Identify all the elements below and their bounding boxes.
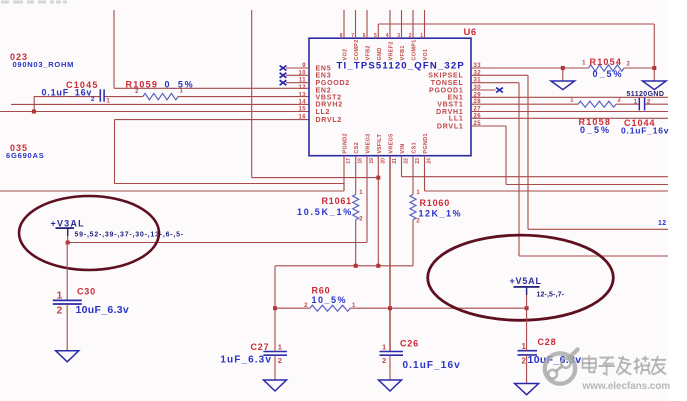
wire net EN2 vertical from top (113, 10, 115, 88)
svg-text:1: 1 (106, 98, 110, 105)
svg-text:6: 6 (363, 33, 366, 39)
svg-text:11: 11 (299, 78, 306, 84)
wire pin13 branch to C1045 (34, 96, 100, 111)
svg-text:PGND1: PGND1 (423, 133, 429, 153)
net label 51120GND (627, 91, 665, 98)
pin 19 VREG3 (bottom) (366, 133, 375, 163)
R1059 labels (126, 79, 195, 89)
wire R60 to VREG5 junction (350, 307, 390, 309)
C1044 pin labels (634, 98, 651, 105)
svg-text:17: 17 (346, 158, 352, 164)
svg-text:VO1: VO1 (423, 49, 429, 61)
svg-text:VIN: VIN (400, 144, 406, 154)
svg-text:10uF_6.3v: 10uF_6.3v (76, 304, 129, 316)
ground symbol C26 (379, 380, 402, 391)
ground symbol (SKIPSEL) (551, 81, 575, 90)
wire pin29 EN1 row (471, 96, 668, 98)
junction dot gnd-right (652, 66, 656, 70)
wire pin28 to R1058 (471, 103, 578, 105)
C1044 labels (621, 118, 669, 135)
svg-text:10: 10 (299, 70, 307, 76)
op-amp U6 TL_TPS51120_QFN_32P body (309, 38, 471, 156)
wire V5FILT column (377, 156, 379, 266)
svg-text:VREG3: VREG3 (366, 133, 372, 153)
pin 25 DRVL1 (right) (437, 121, 481, 130)
svg-text:12: 12 (299, 85, 307, 91)
pin 6 VFB2 (top) (363, 10, 372, 61)
svg-text:2: 2 (135, 89, 139, 95)
svg-text:4: 4 (386, 33, 389, 39)
svg-text:R1059: R1059 (126, 79, 159, 89)
svg-text:LL2: LL2 (316, 109, 331, 116)
svg-text:0_5%: 0_5% (580, 125, 611, 135)
svg-text:10_5%: 10_5% (312, 295, 348, 305)
wire CS2 column to R1061 (355, 156, 357, 195)
svg-text:10.5K_1%: 10.5K_1% (297, 207, 353, 217)
svg-text:12-,5-,7-: 12-,5-,7- (537, 291, 565, 298)
C27 labels (220, 342, 272, 365)
C27 pin labels (278, 342, 282, 365)
pin 15 LL2 (left) (299, 107, 331, 116)
ground stub left (562, 68, 564, 81)
svg-text:CS2: CS2 (354, 142, 360, 154)
svg-text:1: 1 (57, 290, 63, 302)
svg-text:PGND2: PGND2 (343, 133, 349, 153)
pin 33 (right) (474, 63, 482, 69)
svg-text:EN5: EN5 (316, 65, 332, 72)
wire R1061 to junction row (355, 220, 357, 266)
svg-text:EN2: EN2 (316, 87, 332, 94)
ground stub right (653, 68, 655, 81)
svg-text:22: 22 (404, 158, 410, 164)
svg-text:+V3AL: +V3AL (51, 218, 85, 228)
wire +V3AL rail (68, 242, 367, 244)
wire corner into PGND2 rail (343, 184, 345, 192)
wire horizontal y183 (115, 183, 345, 185)
pin 27 DRVH1 (right) (436, 107, 481, 116)
pin 4 VREF2 (top) (386, 10, 395, 61)
svg-text:EN3: EN3 (316, 73, 332, 80)
pin 11 PGOOD2 (left) (280, 78, 350, 87)
wire +V5AL stub (526, 295, 528, 308)
svg-text:20: 20 (380, 158, 386, 164)
pin 20 V5FILT (bottom) (377, 134, 386, 164)
wire PGND2 rail to left edge (0, 190, 344, 192)
pin 1 VO1 (top) (420, 10, 429, 61)
resistor R1059 (143, 93, 178, 99)
C1045 labels (42, 80, 99, 97)
svg-text:1: 1 (570, 97, 574, 103)
wire C27 column (274, 308, 276, 380)
svg-text:2: 2 (416, 218, 420, 224)
svg-text:CS1: CS1 (412, 142, 418, 154)
svg-text:VFB1: VFB1 (400, 45, 406, 60)
junction dot C27 tee (273, 306, 277, 310)
svg-text:0.1uF_16v: 0.1uF_16v (403, 360, 461, 371)
svg-text:12K_1%: 12K_1% (419, 209, 463, 219)
svg-text:18: 18 (358, 158, 364, 164)
watermark url (582, 381, 671, 392)
white margin strip right (669, 0, 687, 401)
R1054 labels (582, 57, 630, 79)
pin 16 DRVL2 (left) (299, 115, 343, 124)
R1060 labels (419, 198, 463, 219)
svg-text:DRVL1: DRVL1 (437, 123, 464, 130)
C1045 pin labels (91, 96, 110, 104)
U6 part name title (337, 61, 465, 72)
capacitor C1044 plates (639, 98, 644, 111)
pin 31 TONSEL (right) (431, 78, 482, 87)
svg-text:COMP1: COMP1 (412, 39, 418, 60)
resistor R60 (310, 305, 350, 311)
wire C1044 to edge (645, 103, 668, 105)
svg-text:C26: C26 (400, 339, 419, 349)
part text Q35 (10, 143, 28, 153)
wire pin27 DRVH1 row (471, 111, 668, 113)
wire junction row drop to C27 (274, 266, 276, 308)
pin 21 VREG5 (bottom) (389, 133, 398, 163)
pin 30 PGOOD1 (right) (429, 85, 481, 94)
wire pin15 LL2 row (0, 111, 309, 113)
pin 17 PGND2 (bottom) (343, 133, 352, 163)
wire C28 column (526, 308, 528, 383)
wire C30 to ground (66, 304, 68, 351)
wire C27 tee to R60 (275, 307, 310, 309)
wire pin31 route (471, 83, 668, 256)
net list +V3AL (75, 231, 184, 238)
svg-text:2: 2 (382, 356, 386, 365)
R1059 pin labels (135, 88, 183, 94)
capacitor C26 plates (380, 352, 404, 356)
pin 2 COMP1 (top) (409, 10, 418, 61)
wire VREG3 column (366, 156, 368, 243)
net list +V5AL (537, 291, 565, 298)
faint cropped text remnant top-left (1, 1, 67, 4)
svg-text:1: 1 (582, 61, 586, 67)
svg-text:24: 24 (427, 158, 433, 164)
ground symbol C27 (264, 380, 287, 391)
C30 labels (76, 287, 129, 316)
C28 pin labels (522, 342, 527, 366)
wire CS1 column to R1060 (412, 156, 414, 195)
ellipse annotation right (428, 235, 614, 320)
wire pin30 stub (471, 89, 496, 91)
svg-text:GND: GND (377, 47, 383, 60)
R1058 pin labels (570, 97, 621, 103)
pin 26 LL1 (right) (449, 113, 481, 122)
svg-text:9: 9 (302, 63, 306, 69)
svg-text:1uF_6.3v: 1uF_6.3v (220, 355, 272, 366)
svg-text:www.elecfans.com: www.elecfans.com (582, 381, 671, 392)
svg-text:R1061: R1061 (321, 196, 352, 206)
resistor R1061 (353, 195, 359, 220)
svg-text:2: 2 (627, 62, 631, 68)
capacitor C28 plates (518, 351, 538, 355)
svg-text:DRVH2: DRVH2 (316, 102, 343, 109)
svg-text:1: 1 (278, 342, 282, 351)
pin 23 CS1 (bottom) (412, 142, 421, 164)
resistor R1058 (578, 101, 616, 107)
pin 3 VFB1 (top) (397, 10, 406, 61)
wire +V3AL stub (67, 236, 69, 243)
svg-text:0_5%: 0_5% (593, 69, 624, 79)
svg-text:V5FILT: V5FILT (377, 134, 383, 154)
C28 labels (528, 337, 582, 366)
svg-text:C27: C27 (251, 342, 270, 352)
part text 6G690AS (6, 151, 45, 160)
pin 10 EN3 (left) (280, 70, 332, 79)
capacitor C27 plates (263, 352, 287, 356)
svg-text:2: 2 (409, 33, 412, 39)
junction dot V5FILT bottom (376, 264, 380, 268)
R1061 labels (297, 196, 353, 217)
wire pin16 DRVL2 row (115, 119, 310, 121)
junction dot C28/+V5AL (525, 306, 529, 310)
svg-text:PGOOD1: PGOOD1 (429, 87, 463, 94)
wire pin14 DRVH2 row (11, 103, 309, 105)
svg-text:1: 1 (522, 342, 527, 351)
svg-text:2: 2 (359, 217, 363, 223)
power symbol +V5AL (514, 286, 540, 295)
svg-text:VREG5: VREG5 (389, 133, 395, 153)
wire R1058 to C1044 (616, 103, 639, 105)
pin 14 DRVH2 (left) (299, 99, 343, 108)
capacitor C1045 plates (100, 89, 104, 101)
net stub label 12 (658, 220, 666, 227)
ellipse annotation left (19, 196, 159, 270)
svg-text:PGOOD2: PGOOD2 (316, 80, 350, 87)
U6 refdes (464, 27, 477, 38)
pin 9 EN5 (left) (280, 63, 332, 72)
pin 28 VBST1 (right) (437, 99, 481, 108)
svg-text:SKIPSEL: SKIPSEL (428, 73, 463, 80)
part text 090N03_ROHM (13, 60, 75, 69)
svg-text:TONSEL: TONSEL (431, 80, 464, 87)
C30 pin labels (57, 290, 63, 317)
svg-text:19: 19 (369, 158, 375, 164)
svg-text:VREF2: VREF2 (389, 41, 395, 60)
wire C1045 to R1059 (104, 96, 143, 98)
svg-text:2: 2 (618, 97, 622, 103)
wire vertical from top x252 (251, 10, 253, 178)
svg-text:2: 2 (522, 357, 527, 366)
wire DRVL2 vertical drop (114, 120, 116, 184)
svg-text:U6: U6 (464, 27, 477, 38)
svg-text:23: 23 (415, 158, 421, 164)
wire pin33 SKIPSEL row (471, 67, 589, 69)
svg-text:090N03_ROHM: 090N03_ROHM (13, 60, 75, 69)
pin 5 GND (top) (374, 33, 383, 60)
watermark chinese text (583, 355, 667, 374)
wire pin32 route (471, 75, 668, 229)
watermark logo (545, 350, 578, 384)
R60 labels (312, 286, 348, 305)
wire GND pin5 up-over to right (378, 24, 654, 68)
svg-text:21: 21 (392, 158, 398, 164)
svg-text:13: 13 (299, 92, 307, 98)
R1060 pin labels (416, 190, 420, 224)
svg-text:VFB2: VFB2 (366, 45, 372, 60)
junction dot V5FILT tee (376, 176, 380, 180)
svg-text:VBST1: VBST1 (437, 102, 463, 109)
svg-text:TI_TPS51120_QFN_32P: TI_TPS51120_QFN_32P (337, 61, 465, 72)
svg-text:0.1uF_16v: 0.1uF_16v (621, 126, 669, 136)
wire +V3AL to C30 (66, 243, 68, 301)
ground symbol C30 (56, 351, 79, 362)
svg-text:VBST2: VBST2 (316, 95, 342, 102)
svg-text:1: 1 (416, 190, 420, 196)
svg-text:1: 1 (634, 98, 638, 105)
capacitor C30 plates (53, 300, 82, 304)
svg-text:15: 15 (299, 107, 307, 113)
svg-text:6G690AS: 6G690AS (6, 151, 45, 160)
wire R1060 to junction row (412, 220, 414, 266)
wire pin25 DRVL1 route (471, 126, 668, 185)
svg-text:0_5%: 0_5% (165, 79, 195, 89)
wire R1054 to gnd-right (624, 67, 654, 69)
resistor R1054 (589, 65, 625, 71)
no-connect X pin30 (496, 88, 503, 93)
ground symbol C28 (515, 384, 539, 395)
wire pin12 EN2 row (114, 87, 309, 89)
pin 24 PGND1 (bottom) (423, 133, 432, 163)
+V5AL label (510, 276, 542, 286)
R1058 labels (579, 117, 612, 135)
wire pin26 LL1 row (471, 117, 668, 119)
svg-text:COMP2: COMP2 (354, 39, 360, 60)
wire V5FILT horizontal (252, 177, 379, 179)
pin 8 VO2 (top) (340, 10, 349, 61)
svg-text:1: 1 (420, 33, 423, 39)
svg-text:C28: C28 (538, 337, 557, 347)
ground symbol (51120GND) (643, 81, 667, 90)
svg-text:2: 2 (57, 305, 63, 317)
svg-text:8: 8 (340, 33, 343, 39)
svg-text:1: 1 (382, 342, 386, 351)
pin 22 VIN (bottom) (400, 144, 409, 164)
wire junction row y266 (275, 265, 413, 267)
svg-text:2: 2 (278, 356, 282, 365)
pin 18 CS2 (bottom) (354, 142, 363, 164)
pin 12 EN2 (left) (299, 85, 332, 94)
wire PGND1 column (425, 156, 669, 191)
svg-text:16: 16 (299, 115, 307, 121)
svg-text:C30: C30 (77, 287, 96, 297)
svg-text:59-,52-,39-,37-,30-,13-,6-,5-: 59-,52-,39-,37-,30-,13-,6-,5- (75, 231, 184, 238)
svg-text:+V5AL: +V5AL (510, 276, 542, 286)
svg-text:0.1uF_16v: 0.1uF_16v (42, 87, 93, 97)
svg-text:7: 7 (351, 33, 354, 39)
wire C26 lower stub (389, 355, 391, 380)
wire +V5AL rail (390, 307, 527, 309)
C26 pin labels (382, 342, 386, 365)
pin 13 VBST2 (left) (299, 92, 342, 101)
svg-text:LL1: LL1 (449, 116, 464, 123)
junction dot R1061 bottom (354, 264, 358, 268)
junction dot C1045/LL2 (32, 110, 36, 114)
svg-text:R1060: R1060 (420, 198, 451, 208)
power symbol +V3AL (56, 227, 75, 236)
svg-text:3: 3 (397, 33, 400, 39)
resistor R1060 (410, 195, 416, 220)
pin 32 SKIPSEL (right) (428, 70, 481, 79)
wire PGND2 column (343, 156, 345, 191)
wire VREG5 column (389, 156, 391, 352)
part text Q23 (10, 52, 28, 62)
junction dot +V3AL (66, 241, 70, 245)
svg-text:VO2: VO2 (343, 49, 349, 61)
svg-text:12: 12 (658, 220, 666, 227)
wire R1059 to pin13 VBST2 (178, 96, 309, 98)
wire VIN column (402, 156, 669, 177)
svg-text:R1054: R1054 (590, 57, 623, 67)
C26 labels (400, 339, 461, 371)
pin 29 EN1 (right) (448, 92, 482, 101)
svg-text:14: 14 (299, 99, 307, 105)
R1061 pin labels (359, 190, 363, 222)
junction dot SKIPSEL/gnd-left (561, 66, 565, 70)
svg-text:DRVL2: DRVL2 (316, 117, 343, 124)
+V3AL label (51, 218, 85, 228)
R60 pin labels (304, 303, 356, 309)
svg-text:1: 1 (359, 190, 363, 196)
pin 7 COMP2 (top) (351, 10, 360, 61)
junction dot VREG5/C26 (388, 306, 392, 310)
svg-text:5: 5 (374, 33, 377, 39)
